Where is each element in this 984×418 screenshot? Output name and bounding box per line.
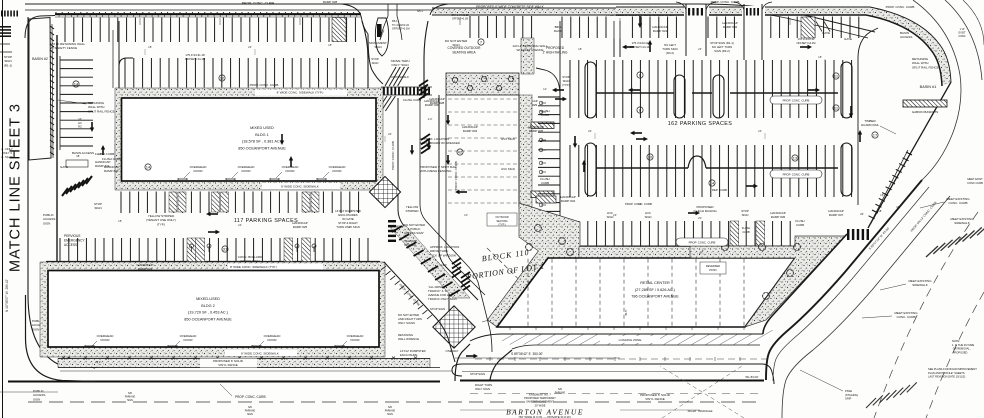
- retail front parking ticks: [579, 221, 790, 246]
- svg-text:PROP. CONC. CURB: PROP. CONC. CURB: [242, 2, 275, 6]
- svg-text:PROP. CONC. CURB: PROP. CONC. CURB: [783, 173, 810, 177]
- label 8 wide conc sidewalk bottom bldg1: [262, 183, 340, 189]
- walkway stipple strip to seating: [521, 38, 534, 74]
- svg-text:20': 20': [860, 212, 864, 216]
- 162 lot west curb vertical: [559, 21, 561, 212]
- label reversed patio: [700, 262, 726, 274]
- handicap ramp hatch west road: [62, 176, 92, 196]
- svg-text:HANDICAPRAMP #30: HANDICAPRAMP #30: [424, 99, 440, 107]
- svg-text:ONE WAY: ONE WAY: [446, 349, 459, 353]
- retail bottom edge dim ticks: [510, 325, 744, 330]
- parking row ticks 162 north edge segments: [562, 17, 676, 39]
- svg-text:STOPSIGN: STOPSIGN: [371, 57, 379, 65]
- svg-text:GABION BASKETS: GABION BASKETS: [912, 110, 938, 114]
- queue lane east curb: [518, 95, 520, 207]
- svg-text:17: 17: [873, 132, 878, 137]
- svg-text:SIGHT TRIANGLE: SIGHT TRIANGLE: [688, 409, 713, 413]
- monument black bar at entrance: [377, 24, 382, 37]
- svg-text:MEET EXISTCONC CURB: MEET EXISTCONC CURB: [967, 177, 983, 185]
- svg-text:18': 18': [578, 47, 582, 51]
- svg-text:STOPSIGN(R1-1): STOPSIGN(R1-1): [4, 55, 13, 67]
- monument sign + entrance drive west: [362, 21, 368, 88]
- prop conc curb boxes 162: [770, 96, 822, 104]
- svg-text:14: 14: [710, 180, 715, 185]
- svg-text:18': 18': [118, 219, 122, 223]
- SE road outer edge: [782, 196, 950, 418]
- main drive lane curbs from barton: [455, 344, 470, 381]
- sidewalk band top from entrance to corner with stipple: [432, 8, 616, 15]
- loading zone hatch band: [502, 326, 775, 345]
- sight triangle dashed lines: [662, 366, 742, 418]
- 162 lot east edge curb: [857, 58, 859, 205]
- svg-text:BASIN #2: BASIN #2: [32, 57, 48, 61]
- crosswalk zebra main entrance: [383, 87, 430, 95]
- svg-text:14: 14: [74, 81, 79, 86]
- svg-text:18': 18': [148, 45, 152, 49]
- svg-text:45.5': 45.5': [624, 309, 628, 316]
- svg-text:FLUSHCURB: FLUSHCURB: [742, 226, 751, 234]
- parking row B above bldg2: [60, 238, 368, 262]
- driveway opening main entrance (gap in sidewalk band): [362, 11, 431, 19]
- existing road dashed diagonals bottom right: [874, 212, 978, 418]
- svg-text:MEET EXISTINGCONC. CURB: MEET EXISTINGCONC. CURB: [946, 197, 970, 205]
- flare curbs NE drives: [676, 2, 716, 10]
- label 8 wide conc sidewalk top bldg1: [255, 90, 347, 96]
- retaining wall textured line top left half: [55, 13, 361, 15]
- svg-text:2 - ONLYONLY 32 - 5(L/R): 2 - ONLYONLY 32 - 5(L/R): [1, 147, 13, 159]
- dumpster diamond at row end: [369, 176, 400, 207]
- basin #2 outline: [29, 18, 51, 161]
- arrows west column: [90, 122, 94, 132]
- barton center dashed line: [28, 401, 760, 403]
- hatched stall pair NE row: [801, 17, 815, 38]
- lane arrows middle: [446, 115, 450, 125]
- entrance drive NE 1: [686, 4, 706, 56]
- svg-text:18': 18': [880, 193, 884, 197]
- svg-text:HANDICAPRAMP #33: HANDICAPRAMP #33: [462, 125, 478, 133]
- row group 2: centerline + capsules + ticks: [570, 145, 852, 168]
- west parking column ticks: [60, 60, 93, 146]
- svg-text:FLUSHCURB: FLUSHCURB: [540, 109, 549, 117]
- svg-text:YELLOWSTRIPED: YELLOWSTRIPED: [405, 205, 419, 213]
- svg-text:24': 24': [238, 223, 242, 227]
- drive thru queue stacking dashes: [448, 99, 519, 203]
- barton curb stadium right half: [452, 364, 774, 384]
- yellow striping clusters drive-thru: [419, 80, 428, 100]
- building BLDG1 outline: [122, 98, 377, 181]
- barton ave north property line: [58, 358, 430, 360]
- crosswalk zebra top-left 1: [1, 11, 18, 17]
- hatched hc stalls retail front: [730, 221, 739, 246]
- ladder crosswalk right road 1: [926, 224, 984, 257]
- covered outdoor seating stipple: [446, 73, 519, 95]
- svg-text:N 40°36'57" W 289.42': N 40°36'57" W 289.42': [5, 279, 9, 312]
- diagonal stripe ramp band west of crosswalk: [385, 67, 409, 86]
- svg-text:29.3': 29.3': [95, 360, 101, 364]
- svg-text:PROP. CONC. CURB: PROP. CONC. CURB: [391, 141, 395, 170]
- label loading zone: [600, 336, 660, 343]
- svg-text:BASIN ACCESS: BASIN ACCESS: [72, 151, 94, 155]
- dashed lot line diagonal: [487, 248, 560, 320]
- svg-text:8' WIDE CONC. SIDEWALK: 8' WIDE CONC. SIDEWALK: [241, 352, 279, 356]
- SE road curb B heavy: [766, 180, 922, 380]
- entrance median island capsule: [375, 18, 388, 56]
- svg-text:MEET EXISTINGCONC. CURB: MEET EXISTINGCONC. CURB: [894, 311, 918, 319]
- diagonal corridor sw edge: [384, 262, 455, 362]
- svg-text:S 89°36'42" E 350.00': S 89°36'42" E 350.00': [511, 352, 543, 356]
- barton lower edge line: [0, 391, 58, 393]
- building BLDG2 sidewalk stipple band: [40, 262, 385, 357]
- svg-text:8' WIDE CONC. SIDEWALK (TYP.): 8' WIDE CONC. SIDEWALK (TYP.): [230, 265, 277, 269]
- svg-text:FLUSH CURB: FLUSH CURB: [403, 98, 421, 102]
- svg-text:LOADING ZONE: LOADING ZONE: [619, 338, 642, 342]
- svg-text:PROP. CONC. CURB: PROP. CONC. CURB: [235, 395, 266, 399]
- svg-text:10: 10: [648, 154, 653, 159]
- barton dashed property line right half: [475, 358, 768, 360]
- barton second line: [60, 370, 452, 372]
- svg-text:31: 31: [223, 246, 228, 251]
- match line vertical: [2, 0, 4, 418]
- west plaza stipple polygon: [487, 203, 580, 327]
- basin #2 retaining wall hatch right side: [50, 26, 54, 155]
- retail front sidewalk stipple band: [579, 247, 792, 258]
- hvc sign posts column: [539, 101, 546, 216]
- ramp hatch marks in NE driveway gaps: [688, 8, 703, 16]
- svg-text:HVC SIGN: HVC SIGN: [501, 167, 515, 171]
- thin line segments y410: [460, 409, 516, 411]
- dimension marks top boundary: [140, 18, 790, 25]
- basin #1 retaining wall hatch: [869, 152, 912, 219]
- svg-text:10': 10': [464, 213, 468, 217]
- building BLDG2 outline: [48, 271, 379, 348]
- svg-text:BIKERACK: BIKERACK: [554, 25, 562, 33]
- east plaza stipple polygon: [690, 236, 845, 327]
- svg-text:RIGHT TURNONLY SIGN: RIGHT TURNONLY SIGN: [475, 383, 492, 391]
- parking row 2 above bldg1: [125, 58, 354, 88]
- svg-text:HANDICAPRAMP #37: HANDICAPRAMP #37: [828, 209, 844, 217]
- svg-text:PROP. CONC. CURB: PROP. CONC. CURB: [711, 0, 740, 4]
- driveway opening NE-1: [684, 6, 709, 16]
- svg-text:HANDICAPRAMP #25: HANDICAPRAMP #25: [292, 221, 308, 229]
- svg-text:FLUSHCURB: FLUSHCURB: [540, 177, 549, 185]
- crosswalk zebra top-left 2: [0, 26, 11, 37]
- svg-text:HANDICAPRAMP #36: HANDICAPRAMP #36: [770, 211, 786, 219]
- retail tenant division dashed lines: [528, 259, 744, 326]
- svg-text:'ML 83.00': 'ML 83.00': [745, 375, 759, 379]
- svg-text:10'HCRC: 10'HCRC: [78, 117, 82, 129]
- ladder crosswalk bottom right 2: [866, 382, 917, 408]
- svg-text:17A +/-14.0.22OFFSET=14.1M: 17A +/-14.0.22OFFSET=14.1M: [797, 37, 816, 45]
- svg-text:“DRIVE THRUONLY" SIGN: “DRIVE THRUONLY" SIGN: [390, 59, 409, 67]
- SE road inner curb retaining wall along patio: [763, 234, 847, 334]
- label sidewalk bldg2 bottom: [225, 350, 297, 356]
- svg-text:18': 18': [878, 209, 882, 213]
- svg-text:12: 12: [220, 75, 225, 80]
- driveway opening NE-2: [742, 6, 765, 16]
- svg-text:HANDICAPRAMP #24: HANDICAPRAMP #24: [137, 263, 153, 271]
- svg-text:FLUSHCURB: FLUSHCURB: [795, 219, 804, 227]
- svg-text:HANDICAPRAMP #35: HANDICAPRAMP #35: [528, 125, 544, 133]
- row group 1: centerline + capsules + ticks: [570, 60, 852, 93]
- svg-text:PROP. CONC. CURB: PROP. CONC. CURB: [783, 99, 810, 103]
- hatched handicap stalls row A: [169, 192, 177, 212]
- svg-text:10': 10': [896, 205, 900, 209]
- svg-text:STA 1+04.31.22OFFSET=0.1M: STA 1+04.31.22OFFSET=0.1M: [451, 14, 469, 21]
- parking row A below bldg1: [121, 192, 359, 214]
- parking ticks west col of retail lot: [538, 97, 560, 211]
- barton curb return left driveway: [26, 295, 96, 382]
- svg-text:24': 24': [388, 132, 392, 136]
- label outdoor seating typ: [487, 213, 517, 226]
- svg-text:RAMP #28: RAMP #28: [323, 0, 338, 4]
- loading band bottom: [512, 345, 760, 349]
- road top street prop conc curb line: [25, 10, 868, 38]
- barton lane dashed line right half: [470, 393, 760, 395]
- outer road arcs top right: [913, 0, 961, 135]
- entrance drive NE 2: [744, 4, 762, 60]
- label prop conc curb box retail: [676, 238, 728, 246]
- svg-text:8' WIDE CONC. SIDEWALK (TYP.): 8' WIDE CONC. SIDEWALK (TYP.): [277, 91, 324, 95]
- drive thru lane curbs: [439, 95, 478, 300]
- svg-text:117 PARKING SPACES: 117 PARKING SPACES: [234, 218, 298, 224]
- curb island row2 left end: [119, 58, 133, 88]
- right road inner edge continuing south: [922, 135, 952, 180]
- svg-text:HANDICAPRAMP #23: HANDICAPRAMP #23: [104, 165, 120, 173]
- svg-text:YELLOWSTRIPED: YELLOWSTRIPED: [404, 239, 416, 247]
- svg-text:STOP SIGN: STOP SIGN: [470, 372, 485, 376]
- svg-text:PROP. CONC. CURB: PROP. CONC. CURB: [886, 5, 915, 9]
- svg-text:CONC. BOLLARDW/ HVC SIGN: CONC. BOLLARDW/ HVC SIGN: [238, 255, 263, 263]
- basin #1 boundary: [868, 82, 951, 228]
- svg-text:18': 18': [818, 55, 822, 59]
- svg-text:8' WIDE CONC. SIDEWALK: 8' WIDE CONC. SIDEWALK: [281, 185, 319, 189]
- barton ave heavy curb line: [8, 381, 764, 382]
- yellow stripe bars on walkway band: [392, 226, 460, 296]
- up down arrow pair mid 117 lot: [280, 134, 284, 145]
- mini zebra vertical near dumpster: [388, 220, 396, 242]
- building BLDG1 sidewalk stipple band: [115, 88, 383, 190]
- svg-text:20': 20': [698, 216, 702, 220]
- top-left misc curbs: [25, 16, 55, 39]
- svg-text:24': 24': [758, 129, 762, 133]
- svg-text:2-0': 2-0': [428, 117, 433, 121]
- svg-text:STOPSIGN(TYP.): STOPSIGN(TYP.): [562, 75, 570, 87]
- aisle arrows 162 lot: [622, 45, 634, 49]
- svg-text:HVCSIGN: HVCSIGN: [645, 211, 652, 219]
- label proposed 6 solid vinyl fence left: [200, 359, 257, 368]
- svg-text:R5-1: R5-1: [417, 9, 423, 13]
- west boundary curb long: [28, 17, 96, 368]
- hatched stalls row B + bollard circles: [187, 238, 196, 262]
- vinyl fence line with x marks: [62, 357, 417, 360]
- dumpster diamond mid: [433, 306, 475, 348]
- svg-text:DEP. CURB: DEP. CURB: [712, 188, 727, 192]
- parking row ticks north boundary row: [65, 18, 355, 43]
- walkway lines into lot at x614: [613, 21, 615, 57]
- retail building parallelogram: [497, 258, 795, 327]
- svg-text:12': 12': [543, 87, 547, 91]
- svg-text:18': 18': [328, 43, 332, 47]
- svg-text:FLUSH CURB: FLUSH CURB: [95, 152, 114, 156]
- barton ave sidewalk stipple band left: [58, 359, 430, 368]
- aisle arrows north lot: [552, 88, 564, 92]
- gabion baskets bar: [903, 100, 947, 107]
- svg-text:FLUSH CURB: FLUSH CURB: [102, 157, 121, 161]
- svg-text:HANDICAPRAMP #31: HANDICAPRAMP #31: [652, 25, 668, 33]
- handicap ramp 34 bar: [536, 196, 556, 203]
- road top street edge of pavement: [25, 4, 875, 32]
- svg-text:HANDICAPRAMP #32: HANDICAPRAMP #32: [722, 21, 738, 29]
- svg-text:PROP. CONC. CURB: PROP. CONC. CURB: [689, 241, 716, 245]
- svg-text:24': 24': [248, 45, 252, 49]
- svg-text:STOPSIGN: STOPSIGN: [741, 209, 749, 217]
- circled stall counts 117 lot: [219, 75, 225, 81]
- entrance south curb wrap: [368, 34, 383, 84]
- drive lane up the middle west curb: [398, 98, 449, 312]
- retail aisle ne curb curve: [536, 68, 560, 95]
- svg-text:HVC SIGN: HVC SIGN: [501, 137, 515, 141]
- svg-text:BASIN #1: BASIN #1: [920, 85, 937, 89]
- svg-text:PROPOSED 4' SPLIT RAILWITH MES: PROPOSED 4' SPLIT RAILWITH MESH FENCING: [420, 165, 457, 173]
- svg-text:STOPSIGN: STOPSIGN: [94, 202, 102, 210]
- svg-text:GATE: GATE: [822, 31, 830, 35]
- handicap ramp bars retail west: [531, 122, 554, 129]
- svg-text:GATE: GATE: [844, 37, 852, 41]
- svg-text:23': 23': [613, 213, 617, 217]
- svg-text:HANDICAPRAMP #34: HANDICAPRAMP #34: [560, 195, 576, 203]
- svg-text:STOP SIGN: STOP SIGN: [430, 307, 445, 311]
- zebra crosswalk retail east: [847, 229, 869, 240]
- circled counts 162 lot: [637, 72, 643, 78]
- svg-text:42: 42: [458, 149, 463, 154]
- aisle arrows 117 lot: [206, 212, 218, 216]
- svg-text:14: 14: [146, 164, 151, 169]
- svg-text:24': 24': [698, 47, 702, 51]
- svg-text:13: 13: [793, 155, 798, 160]
- svg-text:24': 24': [588, 129, 592, 133]
- diagonal stippled walkway band: [389, 226, 470, 298]
- svg-text:24': 24': [638, 202, 642, 206]
- stipple strip east of queue lane: [519, 95, 532, 207]
- svg-text:PROP. CONC. CURB: PROP. CONC. CURB: [250, 83, 279, 87]
- label sidewalk bldg2 top: [228, 264, 323, 270]
- svg-text:162 PARKING SPACES: 162 PARKING SPACES: [668, 121, 733, 127]
- west drive curb left: [57, 35, 95, 368]
- hatched stall pair top of bldg1: [332, 18, 346, 42]
- entrance flare curbs main: [342, 4, 368, 34]
- svg-text:MATCH LINE SHEET 3: MATCH LINE SHEET 3: [8, 103, 24, 272]
- retail rear lane north curb / loading band top: [470, 334, 763, 341]
